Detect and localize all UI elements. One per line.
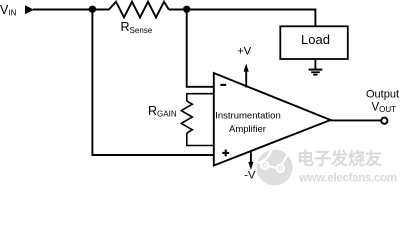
svg-text:RSense: RSense: [121, 20, 153, 35]
ground symbol: [309, 70, 323, 75]
svg-text:Instrumentation: Instrumentation: [215, 111, 280, 122]
svg-text:VIN: VIN: [0, 3, 17, 17]
wire: node A down to plus input: [92, 10, 213, 156]
svg-text:VOUT: VOUT: [372, 101, 397, 113]
input arrow: [25, 5, 34, 14]
plus input sign: [222, 150, 229, 157]
resistor RGAIN: [181, 101, 192, 133]
wire: arrow to RSense: [33, 9, 109, 11]
+V supply arrow: [245, 71, 247, 88]
output terminal circle: [381, 118, 387, 124]
wire: RSense to load corner: [169, 10, 316, 27]
svg-text:电子发烧友: 电子发烧友: [297, 149, 382, 169]
op-amp U1 instrumentation amplifier body: [214, 73, 331, 166]
wire: node B down to minus input: [187, 10, 214, 87]
-V supply arrow: [250, 151, 252, 164]
output wire: [331, 119, 382, 121]
wire: RG top stub: [187, 94, 214, 101]
svg-text:-V: -V: [244, 170, 256, 182]
resistor RSense: [109, 2, 169, 18]
svg-text:Amplifier: Amplifier: [229, 124, 266, 135]
svg-text:+V: +V: [237, 46, 251, 58]
svg-text:Load: Load: [301, 32, 330, 47]
node B junction dot: [183, 6, 190, 13]
wire: load to ground: [314, 59, 316, 70]
wire: RG bottom stub: [187, 133, 214, 146]
minus input sign: [220, 84, 226, 86]
watermark logo (elecfans): [257, 149, 293, 186]
svg-text:www.elecfans.com: www.elecfans.com: [298, 173, 397, 185]
svg-text:RGAIN: RGAIN: [148, 104, 177, 119]
svg-text:Output: Output: [366, 89, 399, 101]
load box: [280, 26, 348, 59]
node A junction dot: [89, 6, 96, 13]
